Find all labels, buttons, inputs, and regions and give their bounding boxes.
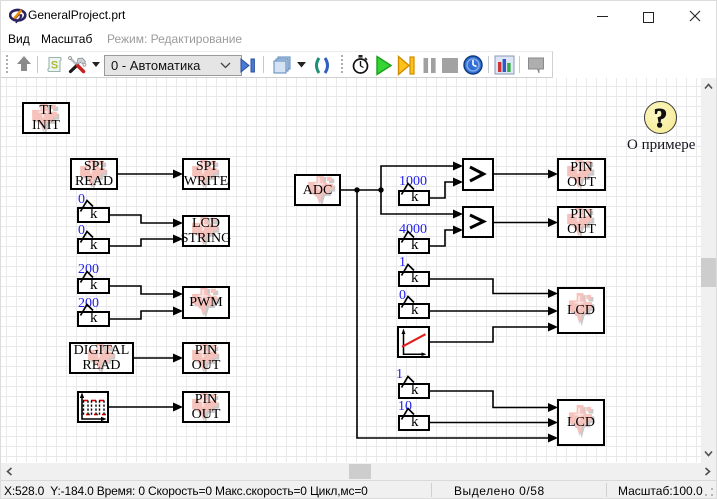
TI logo watermark symbol [0,0,2,2]
wire pulse to PIN OUT b [109,403,183,412]
value 10 [398,399,412,415]
value 0 (b) [78,223,85,239]
wire k200b to PWM in2 [110,307,183,320]
toolbar separator [488,56,489,73]
k block 200 (a) [77,278,110,294]
script tool [46,56,63,73]
wire comparator 1 to PIN OUT 1 [494,170,558,179]
k block 10 [398,415,430,431]
k mark 0a [81,201,94,212]
title bar [1,1,716,32]
play icon [375,55,393,76]
k mark 1a [402,265,415,276]
wire ADC trunk [341,189,381,191]
layers icon [272,56,292,75]
k block 1 (a) [398,271,430,287]
menu bar [8,32,30,46]
k mark 200a [81,272,94,283]
wire k200a to PWM in1 [110,286,183,299]
toolbar strip [1,51,716,78]
combobox [104,55,242,76]
stopwatch icon [351,54,370,75]
block SPI WRITE [182,158,230,190]
block PIN OUT a [182,342,230,374]
layers dropdown [297,62,306,68]
value 1 (a) [399,255,406,271]
block ADC [294,174,341,206]
note icon [527,57,546,74]
k block 1000 [398,190,430,206]
k block 0 (b) [77,238,110,254]
comparator 1 [462,158,494,191]
value 200 (a) [78,262,99,278]
up arrow tool [15,55,33,73]
value 1000 [399,174,427,190]
wire k0b to LCD STRING in2 [110,235,183,247]
k block 200 (b) [77,311,110,327]
wire k1b to LCD2 in1 [430,391,558,412]
toolbar separator [37,56,38,73]
toolbar separator [519,56,520,73]
run-to icon [240,57,257,74]
block SPI READ [70,158,118,190]
block LCD 1 [557,287,605,334]
k block 0 (a) [77,207,110,223]
wire ramp to LCD1 in3 [430,323,558,343]
pulse generator block [77,391,109,423]
toolbar grip 1 [5,54,9,74]
junction dot 1 [354,187,359,192]
block DIGITAL READ [69,342,134,374]
minimize button [597,16,608,17]
block PIN OUT 1 [557,158,606,191]
comparator 2 [462,206,494,238]
maximize button [643,12,654,23]
wire DIGITAL READ to PIN OUT a [134,354,183,363]
canvas [1,78,701,462]
k block 0 (c) [398,303,430,319]
wire k1000 to comparator 1 in2 [430,178,463,199]
tools (hammer+screwdriver) [67,55,88,74]
value 200 (b) [78,296,99,312]
vertical scrollbar [701,78,716,463]
block PWM [182,286,230,319]
app icon [9,7,27,24]
window title [28,8,125,22]
junction dot 2 [378,187,383,192]
combobox chevron [220,62,231,69]
pause icon [421,57,438,74]
status bar [1,480,716,498]
wire k0c to LCD1 in2 [430,307,558,316]
toolbar separator [263,56,264,73]
block LCD STRING [182,215,230,247]
wire ADC to LCD2 in3 [357,190,558,443]
k block 1 (b) [398,383,430,399]
value 0 (a) [78,192,85,208]
toolbar grip 2 [340,54,344,74]
wire comparator 2 to PIN OUT 2 [494,218,558,227]
k mark 0b [81,232,94,243]
svg-text:S: S [51,60,58,72]
block PIN OUT b [182,391,230,423]
help label [627,137,695,154]
wire k1a to LCD1 in1 [430,279,558,298]
block PIN OUT 2 [557,206,606,238]
wire k0a to LCD STRING in1 [110,215,183,228]
value 4000 [399,222,427,238]
wire k10 to LCD2 in2 [430,418,558,427]
close button [689,10,701,22]
k mark 200b [81,305,94,316]
resize grip [704,487,714,497]
value 0 (c) [399,288,406,304]
code icon [312,57,332,74]
block LCD 2 [557,399,605,446]
k mark 10 [402,409,415,420]
wire ADC to comparator 1 in1 [381,162,463,191]
wire k4000 to comparator 2 in2 [430,226,463,247]
k mark 1000 [402,184,415,195]
ramp block [397,326,430,358]
value 1 (b) [396,367,403,383]
k block 4000 [398,238,430,254]
chart icon [494,55,515,75]
stop icon [442,58,458,73]
step icon [397,55,416,76]
horizontal scrollbar [1,463,716,480]
help button [644,101,677,134]
block TI INIT [22,102,70,134]
wire SPI READ to SPI WRITE [118,170,183,179]
wire ADC to comparator 2 in1 [381,190,463,219]
tools dropdown [92,62,100,68]
clock icon [463,55,483,75]
k mark 1b [402,377,415,388]
k mark 0c [402,297,415,308]
k mark 4000 [402,232,415,243]
